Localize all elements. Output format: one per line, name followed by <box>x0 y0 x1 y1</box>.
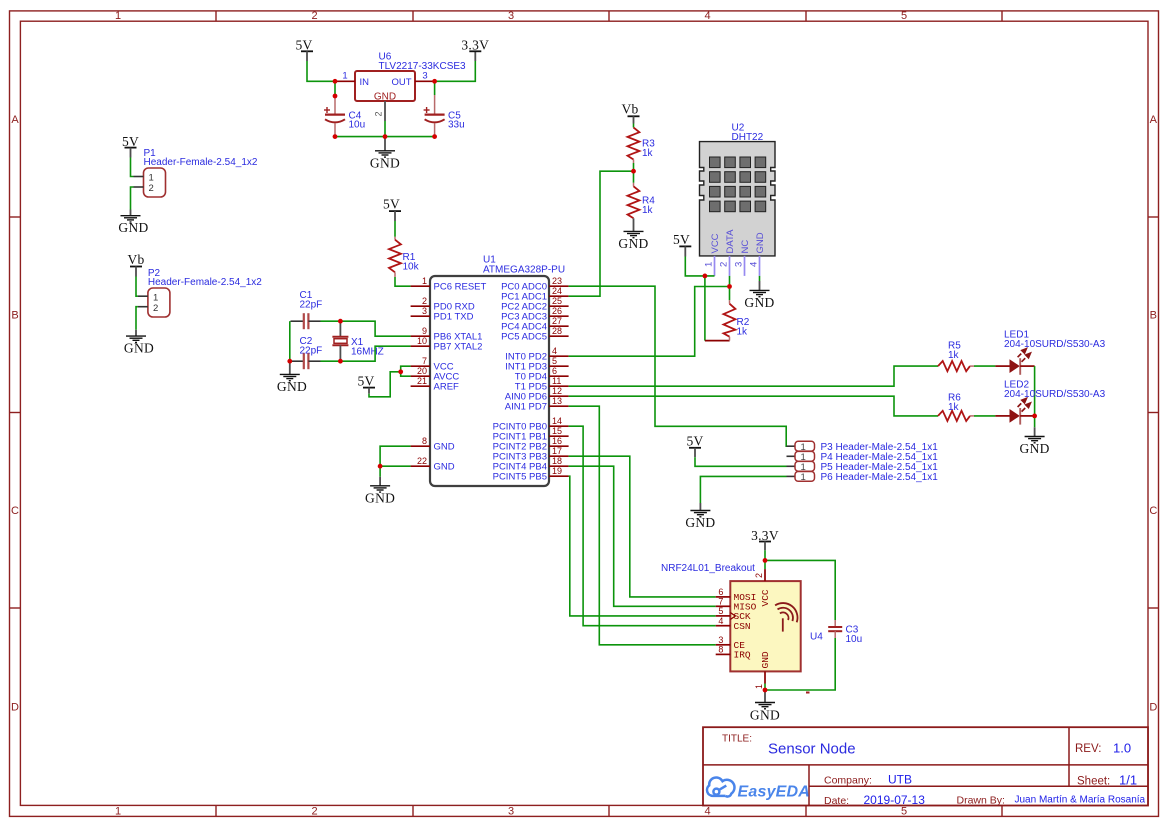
junction <box>378 464 383 469</box>
svg-text:8: 8 <box>718 645 723 655</box>
svg-text:2: 2 <box>153 303 158 314</box>
svg-text:Date:: Date: <box>824 795 849 807</box>
svg-text:18: 18 <box>552 456 562 466</box>
ground (P6) <box>685 503 715 530</box>
svg-text:20: 20 <box>417 366 427 376</box>
junction <box>703 274 708 279</box>
svg-text:27: 27 <box>552 316 562 326</box>
wire C5 branch <box>434 81 436 95</box>
svg-text:2019-07-13: 2019-07-13 <box>864 793 926 807</box>
svg-text:5V: 5V <box>673 232 690 247</box>
wire U1 pin12 to R6 <box>569 396 938 416</box>
wire 5V to VCC/AVCC <box>369 372 401 397</box>
net flag 5V (AVCC) <box>357 374 375 394</box>
wire down to ground <box>379 466 381 477</box>
resistor R5 1k <box>938 341 974 372</box>
svg-text:REV:: REV: <box>1075 743 1101 755</box>
junction <box>338 319 343 324</box>
net flag 3.3V (NRF) <box>751 528 779 550</box>
svg-text:EasyEDA: EasyEDA <box>738 784 811 801</box>
svg-text:4: 4 <box>704 10 710 22</box>
wire R1 to U1 pin1 <box>395 277 411 286</box>
svg-text:2: 2 <box>311 10 317 22</box>
svg-text:19: 19 <box>552 466 562 476</box>
stray dash <box>806 692 810 694</box>
U6 pin 1 <box>335 71 355 82</box>
svg-text:PC6 RESET: PC6 RESET <box>434 282 487 293</box>
wire U1 pin17 to U4 MOSI <box>569 456 716 597</box>
wire divider tap to U1 pin24 <box>569 171 634 296</box>
capacitor C2 22pF <box>291 336 323 369</box>
ground (P1) <box>118 210 148 236</box>
wire U1 pin19 to U4 SCK <box>569 476 716 616</box>
svg-text:5V: 5V <box>383 197 400 212</box>
svg-text:6: 6 <box>552 366 557 376</box>
ground (R4) <box>618 218 648 251</box>
svg-text:U4: U4 <box>810 632 823 643</box>
svg-text:D: D <box>1149 702 1157 714</box>
svg-text:1k: 1k <box>642 148 654 159</box>
TITLE BLOCK <box>703 727 1148 807</box>
svg-text:7: 7 <box>422 356 427 366</box>
svg-text:9: 9 <box>422 326 427 336</box>
svg-text:1: 1 <box>342 71 347 82</box>
capacitor C4 10u <box>324 96 365 137</box>
svg-text:GND: GND <box>365 490 395 505</box>
svg-text:B: B <box>1150 310 1157 322</box>
resistor R4 1k <box>628 171 656 218</box>
resistor R6 1k <box>938 393 974 422</box>
svg-text:GND: GND <box>374 92 396 103</box>
svg-text:GND: GND <box>750 707 780 722</box>
svg-text:2: 2 <box>311 805 317 817</box>
wire P6 to GND <box>700 476 786 503</box>
svg-text:204-10SURD/S530-A3: 204-10SURD/S530-A3 <box>1004 389 1106 400</box>
ground (LEDs) <box>1020 427 1050 456</box>
svg-text:3: 3 <box>718 635 723 645</box>
svg-text:5: 5 <box>718 606 723 616</box>
U4 pin 1 GND <box>754 671 765 689</box>
svg-text:1k: 1k <box>737 327 749 338</box>
wire U1 pin18 to U4 MISO <box>569 466 716 606</box>
U2 pin 3 NC <box>734 256 745 276</box>
svg-text:13: 13 <box>552 396 562 406</box>
svg-text:5: 5 <box>901 805 907 817</box>
svg-text:1: 1 <box>704 262 715 267</box>
svg-text:16: 16 <box>552 436 562 446</box>
svg-text:5V: 5V <box>295 37 312 52</box>
junction <box>333 134 338 139</box>
U4 pin 3 CE <box>716 635 731 645</box>
svg-text:1: 1 <box>754 684 764 689</box>
capacitor C5 33u <box>424 95 465 137</box>
svg-text:24: 24 <box>552 286 562 296</box>
svg-text:TITLE:: TITLE: <box>722 734 752 745</box>
wire LED1 to LED2 cathode rail <box>1034 366 1036 416</box>
svg-text:5V: 5V <box>686 433 703 448</box>
connector P3 Header-Male-2.54_1x1 <box>787 441 939 453</box>
wire X1 top to U1 pin9 <box>340 321 410 336</box>
svg-text:5: 5 <box>552 356 557 366</box>
svg-text:3: 3 <box>422 306 427 316</box>
svg-text:17: 17 <box>552 446 562 456</box>
svg-text:2: 2 <box>374 111 384 116</box>
svg-text:B: B <box>11 310 18 322</box>
junction <box>333 94 338 99</box>
resistor R1 10k <box>389 237 420 277</box>
junction <box>287 359 292 364</box>
junction <box>432 134 437 139</box>
U6 pin 3 <box>415 71 435 82</box>
svg-text:1k: 1k <box>948 350 960 361</box>
svg-text:NC: NC <box>740 240 751 254</box>
svg-text:23: 23 <box>552 276 562 286</box>
svg-text:GND: GND <box>755 232 766 253</box>
crystal X1 16MHZ <box>332 321 383 361</box>
wire ground rail under U6 <box>335 136 435 138</box>
svg-text:CSN: CSN <box>734 621 751 632</box>
wire R5 to LED1 <box>974 365 995 367</box>
svg-text:DATA: DATA <box>725 229 736 254</box>
svg-text:IN: IN <box>360 77 370 88</box>
svg-text:16MHZ: 16MHZ <box>351 346 384 357</box>
svg-text:14: 14 <box>552 416 562 426</box>
svg-text:AREF: AREF <box>434 382 460 393</box>
connector P5 Header-Male-2.54_1x1 <box>787 461 939 473</box>
resistor R2 1k <box>724 287 750 341</box>
wire 3.3V to C3 <box>765 560 835 620</box>
svg-text:4: 4 <box>718 616 723 626</box>
connector P4 Header-Male-2.54_1x1 <box>787 451 939 463</box>
svg-text:GND: GND <box>118 220 148 235</box>
regulator U6 TLV2217-33KCSE3 <box>355 51 466 102</box>
U1 right pins <box>493 276 569 482</box>
EasyEDA logo <box>707 777 734 796</box>
wire LED2 to GND <box>1034 416 1036 427</box>
wire U1 pin23 to P3 <box>569 286 787 446</box>
svg-text:3: 3 <box>508 10 514 22</box>
svg-text:GND: GND <box>434 462 455 473</box>
svg-text:11: 11 <box>552 376 561 386</box>
wire 5V to P1 pin1 <box>131 158 134 177</box>
ground (crystal) <box>277 361 307 394</box>
wire 5V to R1 <box>394 221 396 237</box>
svg-text:1: 1 <box>149 173 154 184</box>
capacitor C1 22pF <box>291 290 323 329</box>
U4 pin 5 SCK <box>716 606 731 616</box>
svg-text:GND: GND <box>277 379 307 394</box>
svg-text:1: 1 <box>801 472 806 483</box>
svg-text:5: 5 <box>901 10 907 22</box>
wire R6 to LED2 <box>974 415 995 417</box>
wire X1 bottom to U1 pin10 <box>340 346 410 361</box>
svg-text:NRF24L01_Breakout: NRF24L01_Breakout <box>661 563 755 574</box>
svg-text:1: 1 <box>115 10 121 22</box>
capacitor C3 10u <box>828 620 862 645</box>
svg-text:1k: 1k <box>642 205 654 216</box>
ground (NRF) <box>750 690 780 722</box>
svg-text:1: 1 <box>153 292 158 303</box>
svg-text:25: 25 <box>552 296 562 306</box>
svg-text:3: 3 <box>422 71 427 82</box>
svg-text:VCC: VCC <box>760 589 771 606</box>
svg-text:1.0: 1.0 <box>1113 741 1131 756</box>
wire U1 pin14 to U4 CSN <box>569 426 716 626</box>
svg-text:33u: 33u <box>448 120 465 131</box>
wire C1 to X1 junction <box>321 320 341 322</box>
svg-text:Drawn By:: Drawn By: <box>957 795 1005 807</box>
wire U6 pin2 to rail <box>384 121 386 137</box>
svg-text:P6 Header-Male-2.54_1x1: P6 Header-Male-2.54_1x1 <box>821 472 939 483</box>
svg-text:A: A <box>1150 114 1158 126</box>
net flag 3.3V (regulator output) <box>461 37 489 61</box>
svg-text:GND: GND <box>1020 441 1050 456</box>
U1 left pins <box>411 276 487 472</box>
net flag Vb (divider) <box>621 102 639 124</box>
junction <box>631 169 636 174</box>
U4 pin 4 CSN <box>716 616 731 626</box>
svg-text:GND: GND <box>744 295 774 310</box>
net flag 5V (regulator input) <box>295 37 313 61</box>
svg-text:2: 2 <box>422 296 427 306</box>
svg-text:4: 4 <box>749 262 760 267</box>
wire to pin7 <box>401 366 411 372</box>
diode LED1 204-10SURD/S530-A3 <box>995 330 1105 375</box>
svg-text:2: 2 <box>754 573 764 578</box>
wire 5V down to R2 bottom <box>704 276 706 341</box>
svg-text:Company:: Company: <box>824 775 872 787</box>
svg-text:GND: GND <box>618 236 648 251</box>
svg-text:IRQ: IRQ <box>734 650 751 661</box>
junction <box>383 134 388 139</box>
wire Vb to P2 pin1 <box>136 277 138 297</box>
junction <box>727 284 732 289</box>
wire U1 pin11 to R5 <box>569 366 938 386</box>
svg-text:GND: GND <box>370 156 400 171</box>
svg-text:D: D <box>11 702 19 714</box>
svg-text:Vb: Vb <box>127 252 144 267</box>
svg-text:15: 15 <box>552 426 562 436</box>
svg-text:1k: 1k <box>948 402 960 413</box>
svg-text:21: 21 <box>417 376 427 386</box>
svg-text:10u: 10u <box>846 634 863 645</box>
svg-text:UTB: UTB <box>888 773 912 787</box>
wire C3 to GND <box>765 638 835 690</box>
resistor R3 1k <box>628 124 656 164</box>
svg-text:10u: 10u <box>349 120 366 131</box>
ground (MCU) <box>365 477 395 506</box>
svg-text:C: C <box>11 505 19 517</box>
svg-text:1/1: 1/1 <box>1119 773 1137 788</box>
wire P1 pin2 to GND <box>131 187 134 210</box>
svg-text:5V: 5V <box>357 374 374 389</box>
svg-text:2: 2 <box>149 183 154 194</box>
svg-text:ATMEGA328P-PU: ATMEGA328P-PU <box>483 264 565 275</box>
junction <box>432 79 437 84</box>
net flag Vb (P2) <box>127 252 144 277</box>
svg-text:10: 10 <box>417 336 427 346</box>
svg-text:8: 8 <box>422 436 427 446</box>
svg-text:26: 26 <box>552 306 562 316</box>
svg-text:PC5 ADC5: PC5 ADC5 <box>501 332 547 343</box>
wire 3.3V to VCC <box>764 550 766 569</box>
module U4 NRF24L01_Breakout body <box>661 563 823 671</box>
U4 pin 6 MOSI <box>716 587 731 597</box>
junction <box>333 79 338 84</box>
wire left rail C1-C2 <box>289 321 291 361</box>
wire C2 to X1 bottom junction <box>321 360 341 362</box>
antenna <box>775 603 797 632</box>
U4 pin 7 MISO <box>716 596 731 606</box>
svg-text:Vb: Vb <box>621 102 638 117</box>
wire 5V to P5 <box>695 457 787 466</box>
wire U1 pin13 to U4 CE <box>569 406 716 645</box>
wire U4 GND to ground <box>764 684 766 691</box>
svg-text:4: 4 <box>704 805 710 817</box>
svg-text:22pF: 22pF <box>300 299 323 310</box>
svg-text:12: 12 <box>552 386 562 396</box>
wire U6.OUT to 3.3V <box>435 61 476 81</box>
svg-text:Sensor Node: Sensor Node <box>768 741 856 758</box>
sensor U2 DHT22 body <box>700 123 776 256</box>
junction dots (drawn on top) <box>287 79 1037 692</box>
ground (DHT22) <box>744 276 774 310</box>
U4 pin 8 IRQ <box>716 645 731 655</box>
junction <box>1032 414 1037 419</box>
wire R2 bottom (dark) <box>705 340 730 342</box>
svg-text:2: 2 <box>719 262 730 267</box>
svg-text:AIN1 PD7: AIN1 PD7 <box>505 402 547 413</box>
U2 pin 1 VCC <box>704 256 715 276</box>
diode LED2 204-10SURD/S530-A3 <box>995 379 1105 424</box>
svg-text:PD1 TXD: PD1 TXD <box>434 312 474 323</box>
junction <box>338 359 343 364</box>
junction <box>398 369 403 374</box>
svg-text:A: A <box>11 114 19 126</box>
U6 pin 2 (GND) <box>374 101 386 121</box>
wire DATA down <box>729 276 731 287</box>
connector P2 Header-Female-2.54_1x2 <box>138 268 262 317</box>
svg-text:10k: 10k <box>403 261 420 272</box>
svg-text:1: 1 <box>422 276 427 286</box>
connector P6 Header-Male-2.54_1x1 <box>787 472 939 484</box>
connector P1 Header-Female-2.54_1x2 <box>134 148 258 197</box>
wire to pin20 <box>401 372 411 376</box>
ground (P2) <box>124 330 154 356</box>
svg-text:Juan Martín & María Rosanía: Juan Martín & María Rosanía <box>1015 795 1146 806</box>
svg-text:7: 7 <box>718 596 723 606</box>
svg-text:GND: GND <box>685 515 715 530</box>
svg-text:3: 3 <box>734 262 745 267</box>
net flag 5V (P5) <box>686 433 703 457</box>
svg-text:PB7 XTAL2: PB7 XTAL2 <box>434 342 483 353</box>
wire 5V to U2 VCC <box>685 257 714 276</box>
wire P2 pin2 to GND <box>136 307 138 330</box>
wire U1 pin22 to GND <box>380 465 411 467</box>
wire R3 to junction <box>633 163 635 171</box>
svg-text:1: 1 <box>115 805 121 817</box>
svg-text:4: 4 <box>552 346 557 356</box>
ic U1 ATMEGA328P-PU body <box>430 254 565 486</box>
svg-text:GND: GND <box>760 651 771 668</box>
svg-text:204-10SURD/S530-A3: 204-10SURD/S530-A3 <box>1004 339 1106 350</box>
U2 pin 4 GND <box>749 256 760 276</box>
svg-text:Sheet:: Sheet: <box>1077 776 1110 788</box>
svg-text:C: C <box>1149 505 1157 517</box>
svg-text:VCC: VCC <box>710 233 721 253</box>
net flag 5V (DHT22) <box>673 232 691 257</box>
svg-text:22: 22 <box>417 456 427 466</box>
net flag 5V (P1) <box>122 134 139 158</box>
svg-text:Header-Female-2.54_1x2: Header-Female-2.54_1x2 <box>144 157 258 168</box>
U2 pin 2 DATA <box>719 256 730 276</box>
svg-text:3: 3 <box>508 805 514 817</box>
wire U1 pin8 to GND <box>380 446 411 466</box>
ground (regulator) <box>370 137 400 171</box>
svg-text:Header-Female-2.54_1x2: Header-Female-2.54_1x2 <box>148 277 262 288</box>
svg-text:GND: GND <box>124 340 154 355</box>
wire DATA to U1 pin4 <box>569 287 730 357</box>
net flag 5V (R1) <box>383 197 401 222</box>
wire U6.IN branch down to C4 <box>334 81 336 96</box>
junction <box>763 688 768 693</box>
wire 5V to U6.IN <box>307 61 335 81</box>
junction <box>763 558 768 563</box>
svg-text:28: 28 <box>552 326 562 336</box>
svg-text:PCINT5 PB5: PCINT5 PB5 <box>493 472 547 483</box>
svg-text:GND: GND <box>434 442 455 453</box>
svg-text:OUT: OUT <box>391 77 411 88</box>
U4 pin 2 VCC <box>754 569 765 581</box>
svg-text:3.3V: 3.3V <box>461 37 489 52</box>
